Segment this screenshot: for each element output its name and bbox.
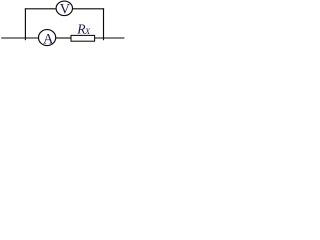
svg-text:X: X xyxy=(84,27,91,36)
wire: left vertical riser xyxy=(24,8,26,40)
wire: top left segment to voltmeter xyxy=(25,8,57,10)
voltmeter U1 circle xyxy=(56,1,72,16)
wire: right vertical riser xyxy=(103,8,105,40)
svg-text:A: A xyxy=(43,32,54,48)
wire: resistor to right edge xyxy=(95,37,125,39)
wire: top right segment from voltmeter xyxy=(72,8,104,10)
ammeter U2 circle xyxy=(39,30,56,46)
wire: ammeter to resistor xyxy=(56,37,71,39)
svg-text:V: V xyxy=(60,2,71,18)
resistor RX box xyxy=(71,35,95,41)
wire: bottom lead from left edge to ammeter xyxy=(1,37,39,39)
